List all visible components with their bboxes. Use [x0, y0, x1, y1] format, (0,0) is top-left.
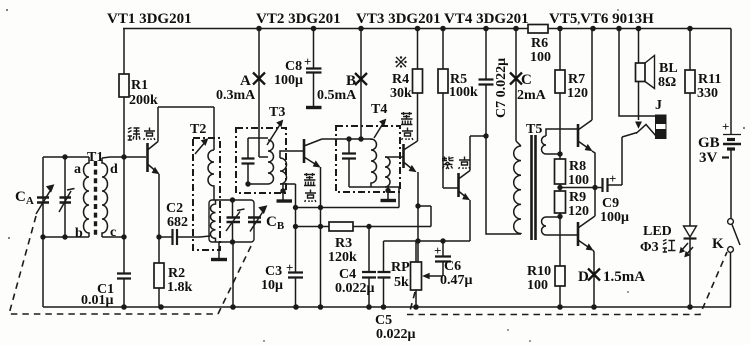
label blue-dot VT3: [401, 112, 413, 125]
jack plug: [656, 115, 667, 139]
emitter-detector wire: [384, 240, 471, 242]
svg-text:2mA: 2mA: [517, 88, 547, 103]
secondary bottom wire: [385, 187, 399, 199]
T5 secondary bottom winding: [542, 217, 547, 235]
svg-text:D: D: [578, 269, 589, 285]
svg-text:1.8k: 1.8k: [167, 280, 193, 295]
T5 primary coil: [516, 141, 521, 146]
transistor VT4: [457, 173, 460, 197]
T2 primary coil: [208, 150, 214, 200]
svg-text:C4: C4: [339, 267, 356, 282]
capacitor C1: [123, 237, 125, 273]
jack contact: [636, 125, 656, 137]
svg-text:C: C: [521, 72, 532, 88]
svg-text:R6: R6: [531, 36, 548, 51]
secondary top to VT2 base: [280, 151, 303, 158]
resistor R5: [443, 29, 458, 189]
top supply rail: [123, 28, 731, 30]
emitter node: [156, 234, 161, 239]
svg-text:0.5mA: 0.5mA: [317, 88, 357, 103]
T3 internal capacitor: [247, 138, 249, 158]
collector wire VT1 to T2: [158, 107, 214, 150]
svg-text:100k: 100k: [449, 85, 478, 100]
svg-text:T3: T3: [269, 105, 285, 120]
label blue-dot VT2: [304, 173, 316, 186]
svg-text:+: +: [286, 260, 293, 275]
capacitor C5: [383, 241, 385, 272]
svg-text:R3: R3: [335, 236, 352, 251]
trimmer capacitor (osc section): [232, 200, 234, 242]
B test point: [360, 29, 362, 140]
emitters junction wire: [560, 187, 595, 189]
svg-text:b: b: [75, 226, 83, 241]
T2 tank coil: [211, 200, 216, 242]
secondary bottom wire: [280, 184, 296, 208]
tuning arrow T4: [374, 122, 384, 138]
node base VT1: [121, 154, 126, 159]
speaker to contact: [638, 82, 640, 121]
battery GB: [730, 29, 732, 135]
capacitor C3: [295, 208, 297, 273]
T3 primary coil: [268, 140, 274, 184]
ground (T3): [277, 199, 293, 202]
svg-text:120: 120: [567, 86, 588, 101]
gang link dashed (CA): [9, 216, 252, 314]
svg-text:a: a: [74, 162, 81, 177]
label purple-dot VT4: [442, 157, 454, 170]
svg-text:200k: 200k: [129, 93, 158, 108]
svg-text:VT5,VT6 9013H: VT5,VT6 9013H: [549, 11, 654, 27]
svg-text:T4: T4: [371, 102, 387, 117]
svg-text:8Ω: 8Ω: [658, 75, 676, 90]
svg-text:R11: R11: [698, 72, 721, 87]
wiper arrow: [429, 275, 443, 277]
shield box T3 (dash-dot): [236, 128, 286, 193]
transformer T1 secondary winding d-c: [102, 158, 108, 237]
T3 wires: [248, 138, 268, 184]
svg-text:R10: R10: [527, 264, 551, 279]
svg-text:100: 100: [530, 50, 551, 65]
svg-text:A: A: [240, 73, 251, 89]
tuning arrow T2: [195, 141, 206, 154]
T4 secondary coil: [385, 157, 390, 187]
T4 wires: [349, 139, 385, 187]
transformer T1 core: [94, 161, 97, 235]
emitter junction wire: [296, 187, 400, 208]
svg-text:682: 682: [167, 215, 188, 230]
svg-text:0.3mA: 0.3mA: [216, 88, 256, 103]
svg-text:K: K: [712, 236, 724, 252]
svg-text:30k: 30k: [390, 86, 412, 101]
resistor R8: [559, 154, 561, 191]
speaker BL: [638, 29, 640, 64]
svg-text:VT1 3DG201: VT1 3DG201: [107, 11, 192, 27]
svg-text:0.022μ: 0.022μ: [376, 327, 416, 342]
svg-text:C6: C6: [444, 259, 461, 274]
capacitor C6: [442, 241, 444, 256]
shield box T2 (dash-dot): [193, 138, 220, 250]
wire C7 node to T5 primary bottom: [486, 136, 521, 234]
svg-text:J: J: [655, 98, 662, 113]
capacitor C9: [595, 187, 602, 189]
transistor VT6: [577, 222, 580, 246]
svg-text:330: 330: [697, 86, 718, 101]
svg-text:LED: LED: [643, 224, 672, 239]
svg-text:100μ: 100μ: [274, 73, 303, 88]
variable capacitor CB: [248, 218, 261, 223]
wire tank bottom: [43, 237, 89, 307]
ground (tank): [218, 242, 220, 258]
svg-text:C8: C8: [285, 59, 302, 74]
transistor VT1: [146, 143, 149, 172]
ground (C8): [306, 106, 322, 109]
C test point: [515, 29, 517, 142]
resistor R4: [417, 29, 419, 142]
resistor R11: [689, 29, 691, 227]
capacitor C8: [313, 29, 315, 69]
svg-text:T2: T2: [190, 122, 206, 137]
resistor R7: [559, 29, 561, 155]
svg-text:C9: C9: [602, 196, 619, 211]
variable capacitor CA: [37, 198, 49, 203]
tuning arrow T3: [267, 123, 281, 145]
svg-text:R2: R2: [168, 266, 185, 281]
transistor VT5: [577, 124, 580, 147]
svg-text:10μ: 10μ: [261, 278, 283, 293]
svg-text:100: 100: [568, 173, 589, 188]
tank box: [209, 200, 254, 242]
node dots bottom rail: [121, 304, 127, 310]
svg-text:0.022μ: 0.022μ: [335, 281, 375, 296]
wire tank top: [43, 157, 89, 237]
svg-text:+: +: [304, 54, 311, 69]
svg-text:120k: 120k: [328, 250, 357, 265]
svg-text:0.01μ: 0.01μ: [81, 293, 114, 308]
svg-text:3V: 3V: [699, 150, 718, 166]
collector wire VT2 to T4: [322, 138, 371, 140]
svg-text:120: 120: [568, 204, 589, 219]
svg-text:Φ3: Φ3: [640, 240, 659, 255]
svg-text:+: +: [609, 171, 616, 186]
wire c to C1 node: [102, 236, 124, 238]
switch K: [730, 149, 732, 219]
shield box T4 (dash-dot): [336, 126, 400, 192]
T5 core: [532, 135, 536, 240]
potentiometer RP: [415, 241, 417, 307]
svg-text:100: 100: [527, 278, 548, 293]
svg-text:5k: 5k: [394, 275, 409, 290]
transistor VT2: [303, 139, 306, 163]
capacitor C4: [368, 227, 370, 272]
label green-dot: [128, 128, 140, 141]
gang link dashed (RP to K): [407, 252, 727, 315]
capacitor C7: [485, 29, 487, 80]
svg-text:VT4 3DG201: VT4 3DG201: [444, 11, 529, 27]
svg-text:B: B: [346, 73, 356, 89]
resistor R3: [329, 222, 353, 231]
svg-text:1.5mA: 1.5mA: [603, 269, 645, 285]
svg-text:R7: R7: [568, 72, 585, 87]
jack J wire: [619, 29, 656, 117]
collector to C7 node: [470, 135, 486, 137]
ground (T4): [385, 188, 390, 193]
svg-text:0.47μ: 0.47μ: [440, 273, 473, 288]
resistor R1: [123, 29, 125, 158]
T5 secondary top winding: [542, 136, 547, 154]
svg-text:R9: R9: [569, 190, 586, 205]
LED: [684, 226, 697, 237]
tank bottom to rail: [232, 242, 234, 307]
svg-text:+: +: [434, 243, 441, 258]
trimmer capacitor (antenna section): [64, 157, 66, 237]
transformer T1 primary winding a-b: [84, 157, 90, 237]
svg-text:+: +: [722, 119, 729, 134]
T3 secondary coil: [280, 158, 287, 184]
svg-text:C5: C5: [375, 313, 392, 328]
svg-text:C7 0.022μ: C7 0.022μ: [494, 58, 509, 118]
wire d to base node: [102, 157, 146, 158]
A test point: [258, 29, 260, 158]
tank junction dots: [230, 197, 235, 202]
svg-text:R4: R4: [392, 72, 409, 87]
svg-text:d: d: [110, 162, 118, 177]
svg-text:C3: C3: [265, 264, 282, 279]
svg-text:VT3 3DG201: VT3 3DG201: [356, 11, 441, 27]
svg-text:C2: C2: [166, 201, 183, 216]
svg-text:R8: R8: [569, 159, 586, 174]
svg-text:RP: RP: [391, 260, 410, 275]
bottom ground rail: [43, 306, 731, 308]
resistor R6 (in rail): [528, 25, 548, 34]
svg-text:VT2 3DG201: VT2 3DG201: [256, 11, 341, 27]
node dots top rail: [256, 26, 262, 32]
resistor R10: [559, 243, 561, 307]
svg-text:R1: R1: [131, 78, 148, 93]
secondary top to VT3 base: [385, 156, 403, 158]
svg-text:BL: BL: [659, 61, 678, 76]
svg-text:100μ: 100μ: [600, 210, 629, 225]
svg-text:T5: T5: [526, 122, 542, 137]
star mark: [395, 56, 406, 67]
capacitor C2: [159, 236, 172, 238]
svg-text:GB: GB: [698, 135, 720, 151]
resistor R9: [557, 185, 562, 190]
svg-text:T1: T1: [87, 150, 103, 165]
resistor R2: [158, 237, 160, 307]
wire to R3: [296, 226, 330, 228]
T4 primary coil: [371, 139, 377, 187]
T4 internal capacitor: [346, 136, 351, 141]
transistor VT3: [402, 144, 405, 168]
